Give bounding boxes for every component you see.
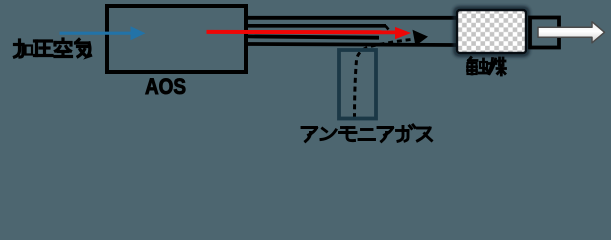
svg-text:AOS: AOS	[145, 74, 186, 99]
